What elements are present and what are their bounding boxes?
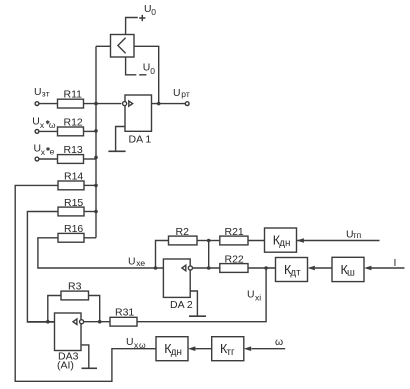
wire input Ux*e to R13: [39, 158, 58, 160]
minus sign: [139, 74, 146, 76]
svg-text:R31: R31: [115, 307, 134, 319]
svg-text:R2: R2: [176, 226, 190, 238]
svg-text:(AI): (AI): [57, 359, 74, 371]
svg-text:U: U: [34, 87, 42, 98]
resistor R21: [220, 236, 248, 245]
wire R2 left leg to node Uxe: [156, 241, 169, 269]
wire R16 left to node Uxe: [38, 238, 163, 268]
terminal Ux*w: [35, 130, 39, 134]
resistor R2: [169, 236, 198, 245]
terminal Urt: [185, 102, 189, 106]
resistor R16: [58, 233, 84, 242]
wire R11 to DA1 input: [84, 103, 122, 105]
svg-text:R13: R13: [64, 144, 83, 156]
wire Utp input with arrow: [297, 240, 380, 242]
wire limiter bottom supply: [126, 57, 137, 75]
DA2 ground wire: [190, 291, 197, 316]
svg-text:U: U: [126, 337, 134, 348]
svg-text:рт: рт: [181, 89, 190, 99]
svg-text:дн: дн: [171, 347, 182, 358]
DA2 triangle symbol: [182, 265, 186, 271]
junction bus R11: [94, 102, 98, 106]
wire limiter top supply: [126, 18, 138, 35]
svg-text:е: е: [50, 147, 55, 157]
wire junction R2/R21 down to DA2 output: [208, 241, 210, 269]
op-amp DA3: [55, 313, 82, 351]
svg-text:0: 0: [150, 66, 155, 76]
svg-text:DA 1: DA 1: [129, 134, 152, 146]
DA3 triangle symbol: [73, 319, 77, 325]
svg-text:R15: R15: [64, 197, 83, 209]
arrowhead into Kdt: [308, 266, 315, 271]
wire Kdt to Ksh: [315, 267, 332, 269]
ground DA3: [82, 367, 98, 369]
resistor R12: [58, 127, 84, 136]
junction DA1 output: [157, 102, 161, 106]
DA3 ground wire: [81, 345, 89, 368]
wire limiter left to bus: [96, 45, 111, 47]
resistor R11: [58, 99, 84, 108]
junction bus R14: [94, 184, 98, 188]
arrowhead into Ktg: [244, 346, 251, 351]
wire DA3 input line from R15: [27, 321, 54, 323]
svg-text:хi: хi: [255, 293, 261, 303]
svg-text:тг: тг: [227, 347, 235, 358]
wire input Ux*w to R12: [39, 130, 58, 132]
svg-text:ω: ω: [49, 120, 56, 130]
block Kdt: [276, 258, 308, 282]
wire R22 to Kdt: [248, 267, 276, 269]
junction node Uxe: [154, 266, 158, 270]
svg-text:U: U: [247, 290, 255, 301]
resistor R31: [110, 317, 137, 326]
ground DA2: [189, 315, 206, 317]
DA2 input circle: [188, 266, 192, 270]
limiter U0 block: [111, 35, 135, 58]
svg-text:х: х: [41, 147, 46, 157]
svg-text:R12: R12: [64, 116, 83, 128]
block Kdn bottom: [156, 337, 188, 361]
wire DA2 right to junction: [193, 267, 220, 269]
svg-text:R14: R14: [64, 171, 83, 183]
wire input Uzt to R11: [39, 103, 58, 105]
DA1 input circle: [123, 102, 127, 106]
DA3 input circle: [80, 320, 84, 324]
arrowhead into Ksh: [364, 266, 371, 271]
DA1 triangle symbol: [129, 101, 133, 106]
ground DA1: [108, 150, 125, 152]
limiter chevron symbol: [118, 38, 126, 53]
wire R21 to Kdn: [248, 240, 265, 242]
wire R14 left feedback from Kdn bottom: [15, 185, 156, 381]
junction R3 left / DA3 input: [46, 320, 50, 324]
wire R3 left leg: [48, 296, 61, 322]
wire R15 right to bus: [84, 211, 96, 213]
wire I input: [371, 267, 405, 269]
resistor R13: [58, 155, 84, 164]
junction R3 right / DA3 output: [98, 320, 102, 324]
svg-text:U: U: [143, 63, 151, 74]
plus sign: [139, 15, 145, 21]
wire omega input: [252, 348, 286, 350]
wire R16 right to bus: [84, 237, 96, 239]
resistor R3: [61, 291, 89, 300]
svg-text:R11: R11: [64, 89, 83, 101]
svg-text:дт: дт: [290, 268, 301, 279]
wire R3 right leg: [89, 296, 100, 322]
junction DA2 output: [207, 266, 211, 270]
wire DA3 output to R31: [84, 321, 110, 323]
svg-text:DA 2: DA 2: [170, 299, 193, 311]
terminal Ux*e: [35, 157, 39, 161]
wire node Uxi down and left to R31: [137, 268, 266, 322]
junction node Uxi: [264, 266, 268, 270]
wire R13 to bus: [84, 158, 97, 160]
svg-text:дн: дн: [279, 238, 290, 249]
resistor R15: [58, 207, 84, 216]
svg-text:R21: R21: [225, 226, 244, 238]
block Ktg: [212, 337, 244, 361]
terminal Uzt: [35, 102, 39, 106]
wire R14 right to bus: [84, 184, 96, 186]
block Kdn top: [265, 228, 297, 252]
svg-text:R22: R22: [225, 253, 244, 265]
svg-text:ω: ω: [139, 340, 146, 350]
wire R21 left leg: [209, 240, 220, 242]
wire R12 to bus: [84, 130, 97, 132]
svg-text:0: 0: [151, 7, 156, 17]
wire summing bus: [95, 46, 97, 238]
junction bus R15: [94, 210, 98, 214]
junction bus R12: [94, 129, 98, 133]
op-amp DA2: [163, 259, 190, 297]
svg-text:х: х: [40, 120, 45, 130]
op-amp DA1: [125, 95, 152, 131]
block Ksh: [332, 257, 364, 281]
svg-text:U: U: [128, 256, 136, 267]
DA1 ground wire: [116, 127, 125, 152]
svg-text:U: U: [32, 117, 40, 128]
svg-text:хе: хе: [136, 258, 145, 268]
wire R15 left to DA3 input: [27, 212, 58, 323]
svg-text:тп: тп: [353, 230, 362, 240]
wire Ktg to Kdn: [196, 348, 212, 350]
resistor R14: [58, 181, 84, 190]
resistor R22: [220, 264, 248, 273]
svg-text:U: U: [173, 88, 181, 99]
arrowhead into Kdn bottom: [188, 346, 195, 351]
wire DA1 output: [152, 103, 186, 105]
wire R2 right leg: [197, 240, 209, 242]
junction bus R13: [94, 156, 98, 160]
arrowhead into Kdn: [297, 238, 304, 243]
svg-text:ш: ш: [347, 268, 355, 279]
svg-text:ω: ω: [275, 337, 283, 348]
junction R2/R21: [207, 239, 211, 243]
svg-text:R16: R16: [64, 223, 83, 235]
svg-text:I: I: [394, 258, 397, 269]
wire limiter right down to DA1 output: [134, 46, 159, 103]
svg-text:зт: зт: [42, 88, 50, 98]
